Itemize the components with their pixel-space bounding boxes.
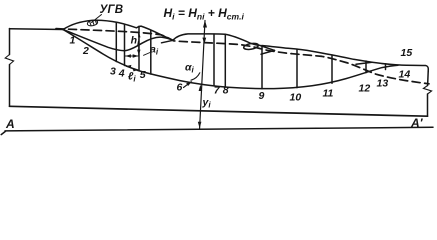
label h_i bbox=[130, 35, 140, 48]
slice line 8 bbox=[224, 34, 226, 87]
wire block 3 top bbox=[173, 34, 275, 51]
svg-text:УГВ: УГВ bbox=[100, 4, 124, 16]
slice line 11 bbox=[331, 55, 333, 83]
node A datum line bbox=[1, 127, 433, 134]
svg-text:A: A bbox=[5, 117, 15, 131]
arrowhead h_i top bbox=[137, 32, 140, 38]
slice line 10 bbox=[296, 49, 298, 88]
svg-text:Hi = Hni + Hcm.i: Hi = Hni + Hcm.i bbox=[164, 6, 245, 22]
svg-text:2: 2 bbox=[82, 45, 89, 57]
wire block 4 top bbox=[263, 46, 372, 63]
arrowhead a_i left bbox=[125, 54, 131, 57]
arrowhead yi bottom bbox=[198, 122, 202, 128]
wire scallop notch 1 bbox=[162, 40, 174, 43]
water table flag symbol bbox=[87, 19, 98, 26]
arrowhead Hi top bbox=[203, 20, 207, 27]
slice line 9 bbox=[261, 45, 263, 88]
wire groundwater dashed line УГВ bbox=[56, 29, 429, 84]
wire slip surface curve bbox=[63, 30, 398, 89]
svg-text:9: 9 bbox=[259, 90, 265, 102]
leader УГВ bbox=[92, 15, 102, 23]
arrowhead h_i bottom bbox=[137, 50, 140, 56]
svg-text:5: 5 bbox=[140, 69, 146, 81]
slice line 7 bbox=[213, 34, 215, 86]
slice line 6 bbox=[150, 30, 152, 74]
svg-text:3: 3 bbox=[110, 66, 116, 78]
wire toe beak top bbox=[372, 62, 428, 71]
svg-text:1: 1 bbox=[70, 35, 76, 47]
slice line 4 bbox=[124, 24, 126, 65]
slice line 3 bbox=[115, 22, 117, 61]
arrowhead l_i right bbox=[133, 68, 139, 72]
arrowhead label-6 arrow bbox=[186, 81, 192, 86]
svg-text:15: 15 bbox=[401, 47, 413, 59]
arrowhead at water line bbox=[202, 38, 206, 44]
wire bottom box line bbox=[10, 106, 428, 116]
arrowhead yi up bbox=[199, 85, 203, 91]
svg-text:10: 10 bbox=[290, 92, 302, 104]
svg-text:12: 12 bbox=[359, 83, 371, 95]
svg-text:6: 6 bbox=[177, 82, 183, 94]
wire scallop notch 3 bbox=[356, 62, 372, 64]
arrowhead a_i right bbox=[133, 54, 139, 57]
small lens ellipse on surface bbox=[243, 42, 259, 50]
arrowhead l_i left bbox=[126, 65, 132, 69]
wire scallop notch 2 bbox=[261, 50, 275, 54]
wire right vertical edge bbox=[427, 72, 430, 117]
svg-text:ai: ai bbox=[150, 44, 159, 57]
break symbol right bbox=[423, 86, 431, 95]
svg-text:ℓi: ℓi bbox=[128, 71, 136, 84]
arrow from label 6 bbox=[184, 82, 191, 87]
slice line 13 bbox=[385, 64, 387, 70]
wire inner lower edge of first block bbox=[63, 30, 173, 51]
svg-text:αi: αi bbox=[185, 62, 195, 75]
svg-text:14: 14 bbox=[399, 69, 411, 81]
wire top-left surface line bbox=[10, 28, 64, 31]
svg-text:yi: yi bbox=[202, 97, 212, 110]
dimension l_i arrow along slip surface bbox=[126, 66, 138, 70]
dimension a_i arrow line bbox=[125, 55, 138, 57]
slice line 5 bbox=[138, 26, 140, 71]
angle arc alpha_i bbox=[191, 73, 200, 80]
break symbol left bbox=[5, 55, 13, 65]
wire left vertical edge bbox=[9, 29, 11, 107]
svg-text:13: 13 bbox=[377, 78, 389, 90]
dimension h_i arrow line bbox=[138, 32, 140, 55]
svg-text:8: 8 bbox=[223, 85, 229, 97]
wire Hi / yi vertical arrow line bbox=[200, 21, 205, 129]
wire top surface boundary with scallops bbox=[63, 20, 173, 40]
slice line 12 bbox=[365, 61, 367, 73]
svg-text:A′: A′ bbox=[410, 116, 424, 130]
svg-text:4: 4 bbox=[118, 68, 125, 80]
leader a_i bbox=[144, 53, 151, 56]
svg-text:11: 11 bbox=[323, 88, 334, 100]
